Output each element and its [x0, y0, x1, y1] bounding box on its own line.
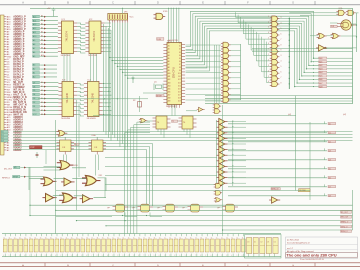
IC3 buffer 74LS245: [58, 80, 77, 120]
frame top border line: [0, 4, 360, 6]
svg-text:G: G: [292, 2, 294, 5]
svg-text:D4: D4: [274, 242, 276, 244]
svg-text:Q1: Q1: [328, 132, 330, 134]
bus staircase CPU to gate column: [236, 12, 270, 83]
svg-text:B0: B0: [41, 82, 43, 84]
svg-text:T0: T0: [159, 237, 161, 239]
IC4 buffer 74LS245: [84, 80, 103, 120]
svg-text:Z80-CPU: Z80-CPU: [171, 67, 175, 78]
flip-flop IC5B: [179, 116, 197, 129]
svg-text:T8: T8: [45, 237, 47, 239]
svg-text:B7: B7: [41, 110, 43, 112]
svg-text:AD4: AD4: [319, 71, 322, 74]
svg-text:D0: D0: [33, 110, 35, 112]
svg-text:RESET: RESET: [156, 96, 162, 98]
svg-text:74LS245N: 74LS245N: [61, 118, 71, 120]
right vertical bus line: [352, 8, 354, 104]
CPU bottom feed verticals: [172, 105, 197, 116]
right bus lines through flags: [252, 49, 353, 87]
svg-text:T1: T1: [9, 237, 11, 239]
svg-text:A6: A6: [33, 51, 35, 54]
svg-text:D1: D1: [2, 135, 4, 137]
svg-text:74LS245: 74LS245: [90, 92, 94, 103]
svg-text:Q5: Q5: [328, 168, 330, 170]
wires from flags: [20, 167, 59, 169]
svg-text:AD3: AD3: [319, 68, 322, 71]
svg-text:(x2): (x2): [343, 114, 346, 116]
svg-text:T7: T7: [195, 237, 197, 239]
flip-flop IC5A: [153, 116, 171, 129]
svg-text:RFSH: RFSH: [13, 176, 19, 178]
RAM rail bottom: [2, 254, 281, 257]
label between FF boxes: [75, 143, 80, 146]
svg-text:74LS374N: 74LS374N: [61, 55, 71, 57]
svg-text:D1: D1: [33, 106, 35, 108]
svg-text:IC8P: IC8P: [30, 147, 35, 149]
svg-text:T5: T5: [29, 237, 31, 239]
CPU bottom pin stubs: [169, 105, 179, 108]
OR gate cluster row1: [57, 161, 78, 170]
gate column A pin number marks: [268, 16, 281, 85]
gate column C long input lines: [105, 158, 217, 185]
left net flag wires lower: [40, 82, 58, 116]
svg-text:A13: A13: [33, 23, 36, 26]
svg-text:IC8B: IC8B: [74, 165, 78, 167]
gate column C feeder vertical: [216, 120, 218, 186]
left net label flags: [33, 15, 40, 18]
svg-text:D7: D7: [33, 82, 35, 84]
red flag upper: [157, 38, 164, 41]
left long verticals: [38, 98, 148, 233]
gates above FF right: [213, 104, 221, 114]
svg-text:AD6: AD6: [319, 78, 322, 81]
OR gate before FF: [139, 118, 147, 123]
xor pair right of ff row: [214, 184, 223, 203]
wires IC1 to IC2: [77, 23, 85, 53]
right dense horizontals: [205, 96, 353, 104]
svg-text:B2: B2: [41, 90, 43, 92]
svg-text:T9: T9: [102, 237, 104, 239]
svg-text:A1: A1: [33, 72, 35, 75]
bus staircase CPU to right net flags: [186, 11, 319, 87]
mid-page long horizontal y190: [56, 190, 310, 192]
svg-text:A11: A11: [33, 31, 36, 34]
svg-text:M1_OUT: M1_OUT: [4, 168, 13, 170]
svg-text:D4: D4: [33, 94, 35, 96]
svg-text:D13: D13: [178, 82, 181, 84]
svg-text:D0: D0: [2, 132, 4, 134]
buffer cluster row3 right: [80, 195, 93, 203]
top connector JP1 body: [108, 12, 134, 23]
connector J1 pin labels: [7, 15, 27, 152]
middle bus left labels: [1, 130, 8, 133]
svg-text:74LS245N: 74LS245N: [87, 118, 97, 120]
small gate top middle: [153, 11, 167, 20]
svg-text:D: D: [157, 2, 159, 5]
svg-text:D14: D14: [178, 85, 181, 87]
svg-text:D17: D17: [178, 94, 181, 96]
svg-text:D9: D9: [179, 70, 181, 72]
wires IC3 to IC4: [77, 84, 84, 117]
svg-text:IC9D: IC9D: [163, 11, 168, 13]
svg-text:D16: D16: [178, 91, 181, 93]
frame top tick marks: [22, 1, 315, 5]
OR gate above FF boxes: [56, 130, 67, 136]
svg-text:T7: T7: [143, 237, 145, 239]
gate column B feeders: [186, 45, 221, 103]
flip-flop box IC7: [89, 134, 107, 154]
timing flip-flop row: [108, 204, 239, 212]
svg-text:Q4: Q4: [328, 159, 330, 161]
svg-text:RFSH_O: RFSH_O: [2, 178, 11, 180]
svg-text:A15: A15: [33, 15, 36, 18]
svg-text:Q6: Q6: [328, 177, 330, 179]
svg-text:D6: D6: [33, 86, 35, 88]
svg-text:T6: T6: [138, 237, 140, 239]
gate column C output rail dots: [232, 120, 233, 186]
svg-text:74LS374: 74LS374: [65, 31, 69, 42]
wait flag: [271, 188, 280, 191]
svg-text:G: G: [292, 265, 294, 267]
svg-text:Q3: Q3: [328, 150, 330, 152]
bottom bus junction dots: [29, 205, 223, 231]
svg-text:T2: T2: [14, 237, 16, 239]
RAM rail top: [2, 234, 281, 237]
OR gate cluster row3 left: [42, 194, 56, 202]
gate column B center: [221, 42, 231, 102]
top right clock gate with circle: [337, 20, 357, 30]
svg-text:D5: D5: [33, 90, 35, 92]
vertical bus right of IC2: [104, 24, 112, 141]
right mid output lines with flags: [228, 124, 327, 196]
svg-text:T1: T1: [172, 121, 174, 123]
FF mid label: [172, 120, 178, 123]
red flag near clock gate: [331, 25, 338, 28]
svg-text:RFSH_O: RFSH_O: [341, 231, 349, 233]
buffer cluster row2 mid: [61, 178, 74, 186]
mid right buffer: [316, 45, 356, 51]
long vertical center-right: [295, 96, 297, 191]
svg-text:B3: B3: [41, 94, 43, 96]
svg-text:74LS374: 74LS374: [92, 31, 96, 42]
cluster wires: [29, 167, 106, 198]
svg-text:Q8: Q8: [328, 195, 330, 197]
connector J1 pins: [4, 16, 6, 150]
svg-text:A0: A0: [33, 76, 35, 79]
svg-text:T3: T3: [174, 237, 176, 239]
svg-text:(c) HvC 2014: (c) HvC 2014: [287, 240, 300, 242]
svg-text:CLK6: CLK6: [157, 39, 161, 41]
svg-text:AD5: AD5: [319, 75, 322, 78]
svg-text:T8: T8: [97, 237, 99, 239]
arrow marks on flag wires: [24, 167, 26, 178]
gate column A 13 gates: [270, 16, 280, 87]
wait buffer triangle: [269, 197, 280, 203]
svg-text:D2: D2: [179, 49, 181, 51]
svg-text:B1: B1: [41, 86, 43, 88]
svg-text:D0: D0: [179, 43, 181, 45]
svg-text:D3: D3: [179, 52, 181, 54]
connector J1 body: [0, 15, 4, 155]
JP1 feed from top rail: [122, 8, 123, 14]
svg-text:D2: D2: [261, 242, 263, 244]
svg-text:D5: D5: [179, 58, 181, 60]
IC1 latch 74LS374: [58, 19, 77, 57]
left net label flags mid group: [33, 64, 40, 67]
svg-text:A8: A8: [33, 43, 35, 46]
top horizontal supply line: [30, 7, 353, 9]
svg-text:D15: D15: [178, 88, 181, 90]
svg-text:RD_OUT: RD_OUT: [341, 212, 348, 214]
svg-text:AD1: AD1: [319, 60, 322, 63]
svg-text:D2: D2: [2, 138, 4, 140]
right net flag column D bus: [319, 57, 327, 60]
svg-text:D11: D11: [178, 76, 181, 78]
gate column B output line: [240, 44, 242, 100]
middle horizontal data bus: [13, 132, 353, 205]
svg-text:C: C: [112, 2, 114, 5]
svg-text:74LS374N: 74LS374N: [88, 55, 98, 57]
svg-text:Q7: Q7: [328, 186, 330, 188]
teal row pin labels IC3 group: [41, 15, 44, 116]
svg-text:D18: D18: [178, 98, 181, 100]
verticals IC1 to IC3: [64, 54, 97, 82]
right flag feed dots: [313, 58, 314, 87]
svg-text:GOLDCPU: GOLDCPU: [168, 40, 178, 42]
svg-text:T0: T0: [211, 237, 213, 239]
mid right OR gate pair: [317, 33, 357, 39]
svg-text:(x2): (x2): [288, 114, 291, 116]
svg-text:B8: B8: [41, 114, 43, 116]
svg-text:T6: T6: [86, 237, 88, 239]
top connector drop wires staircase to CPU: [109, 23, 163, 150]
svg-text:74LS245: 74LS245: [65, 92, 69, 103]
svg-text:D8: D8: [179, 67, 181, 69]
crystal circuit: [143, 82, 166, 94]
svg-text:T3: T3: [226, 237, 228, 239]
IC2 right pin feeder wires: [103, 23, 112, 115]
svg-text:MREQ_O: MREQ_O: [341, 222, 349, 224]
svg-text:D4: D4: [179, 55, 181, 57]
busack yellow label: [299, 189, 311, 192]
svg-text:hvc.hartenberg@home.nl: hvc.hartenberg@home.nl: [287, 242, 310, 245]
svg-text:Q1: Q1: [154, 82, 157, 84]
svg-text:AD0: AD0: [319, 57, 322, 60]
svg-text:ADDR2: ADDR2: [13, 149, 22, 152]
left net flag wires: [40, 16, 58, 58]
svg-text:T4: T4: [231, 237, 233, 239]
gate column C lower: [216, 118, 227, 186]
svg-text:T1: T1: [216, 237, 218, 239]
center-left vertical bundle: [125, 122, 151, 233]
svg-text:A9: A9: [33, 39, 35, 42]
frame bottom double border: [0, 263, 360, 267]
OR gate cluster row2 left: [40, 177, 56, 186]
svg-text:VCC: VCC: [130, 17, 135, 19]
gate column A output bus: [289, 18, 290, 90]
svg-text:1 hvc 10-09-2014 19:22:15: 1 hvc 10-09-2014 19:22:15: [300, 259, 325, 261]
svg-text:A10: A10: [33, 35, 36, 38]
bottom right flag stack: [341, 211, 352, 214]
svg-text:T2: T2: [66, 237, 68, 239]
svg-text:D3: D3: [267, 242, 269, 244]
svg-text:A5: A5: [33, 55, 35, 58]
svg-text:D6: D6: [179, 61, 181, 63]
title block text: [286, 240, 337, 262]
caps small: [36, 152, 39, 158]
vcc flag mid: [132, 77, 134, 83]
gate column B outputs: [231, 45, 241, 100]
svg-text:D1: D1: [254, 242, 256, 244]
right mid flags: [328, 122, 336, 125]
svg-text:A3: A3: [33, 64, 35, 67]
long vertical x310: [309, 122, 311, 200]
svg-text:Q0: Q0: [328, 123, 330, 125]
OR gate cluster row2 right: [82, 175, 103, 186]
reset label flags left mid: [4, 168, 13, 170]
long vertical gate column rail: [222, 105, 224, 234]
svg-text:A7: A7: [33, 47, 35, 50]
ff row connecting wires: [56, 207, 223, 217]
svg-text:A12: A12: [33, 27, 36, 30]
svg-text:A14: A14: [33, 19, 36, 22]
svg-text:D0: D0: [247, 242, 249, 244]
AND gate cluster row3 mid: [59, 193, 77, 203]
red flag mid: [156, 95, 164, 98]
mid horizontal line y115: [93, 114, 346, 116]
svg-text:The one and only Z80 CPU: The one and only Z80 CPU: [286, 253, 337, 258]
svg-text:IORQ_O: IORQ_O: [341, 227, 348, 229]
flip-flop box IC6: [57, 134, 75, 154]
bottom horizontal control lines: [30, 167, 353, 230]
buffer above FF: [197, 107, 205, 112]
CPU inner pin names: [168, 42, 181, 103]
svg-text:AD8: AD8: [319, 85, 322, 88]
svg-text:D3: D3: [33, 98, 35, 100]
top right gate input wires: [289, 13, 356, 36]
svg-text:B6: B6: [41, 106, 43, 108]
svg-text:D10: D10: [178, 73, 181, 75]
gate column C short outputs: [228, 122, 247, 184]
IC2 latch 74LS374: [85, 19, 104, 57]
svg-text:T4: T4: [24, 237, 26, 239]
left net flag wires mid: [40, 64, 57, 78]
svg-text:D7: D7: [179, 64, 181, 66]
svg-text:D2: D2: [33, 102, 35, 104]
svg-text:D19: D19: [178, 101, 181, 103]
svg-text:Q2: Q2: [328, 141, 330, 143]
CPU top feed verticals: [168, 8, 180, 43]
svg-text:D3: D3: [2, 141, 4, 143]
svg-text:R2: R2: [133, 100, 135, 102]
svg-text:A2: A2: [33, 68, 35, 71]
svg-text:AD2: AD2: [319, 64, 322, 67]
svg-text:rev 1.7: rev 1.7: [287, 248, 294, 250]
CPU IC10 Z80 body: [163, 41, 185, 108]
svg-text:WR_OUT: WR_OUT: [341, 217, 348, 219]
svg-text:B5: B5: [41, 102, 43, 104]
power flag top left: [47, 8, 55, 16]
FF drop wires to bus: [147, 121, 191, 138]
RAM last group large cells: [245, 235, 282, 259]
svg-text:T5: T5: [81, 237, 83, 239]
title block outline: [286, 237, 358, 259]
right edge vertical bus: [356, 13, 357, 52]
reset RC parts: [133, 96, 141, 112]
top right AND gate pair: [336, 7, 358, 15]
svg-text:D12: D12: [178, 79, 181, 81]
FF bottom drop wires: [64, 137, 106, 198]
svg-text:M1: M1: [14, 167, 17, 169]
red text block left: [30, 146, 43, 150]
left net label flags lower group: [33, 81, 40, 84]
svg-text:D1: D1: [179, 46, 181, 48]
svg-text:T9: T9: [154, 237, 156, 239]
RAM cell array: [3, 237, 245, 257]
svg-text:AD7: AD7: [319, 82, 322, 85]
